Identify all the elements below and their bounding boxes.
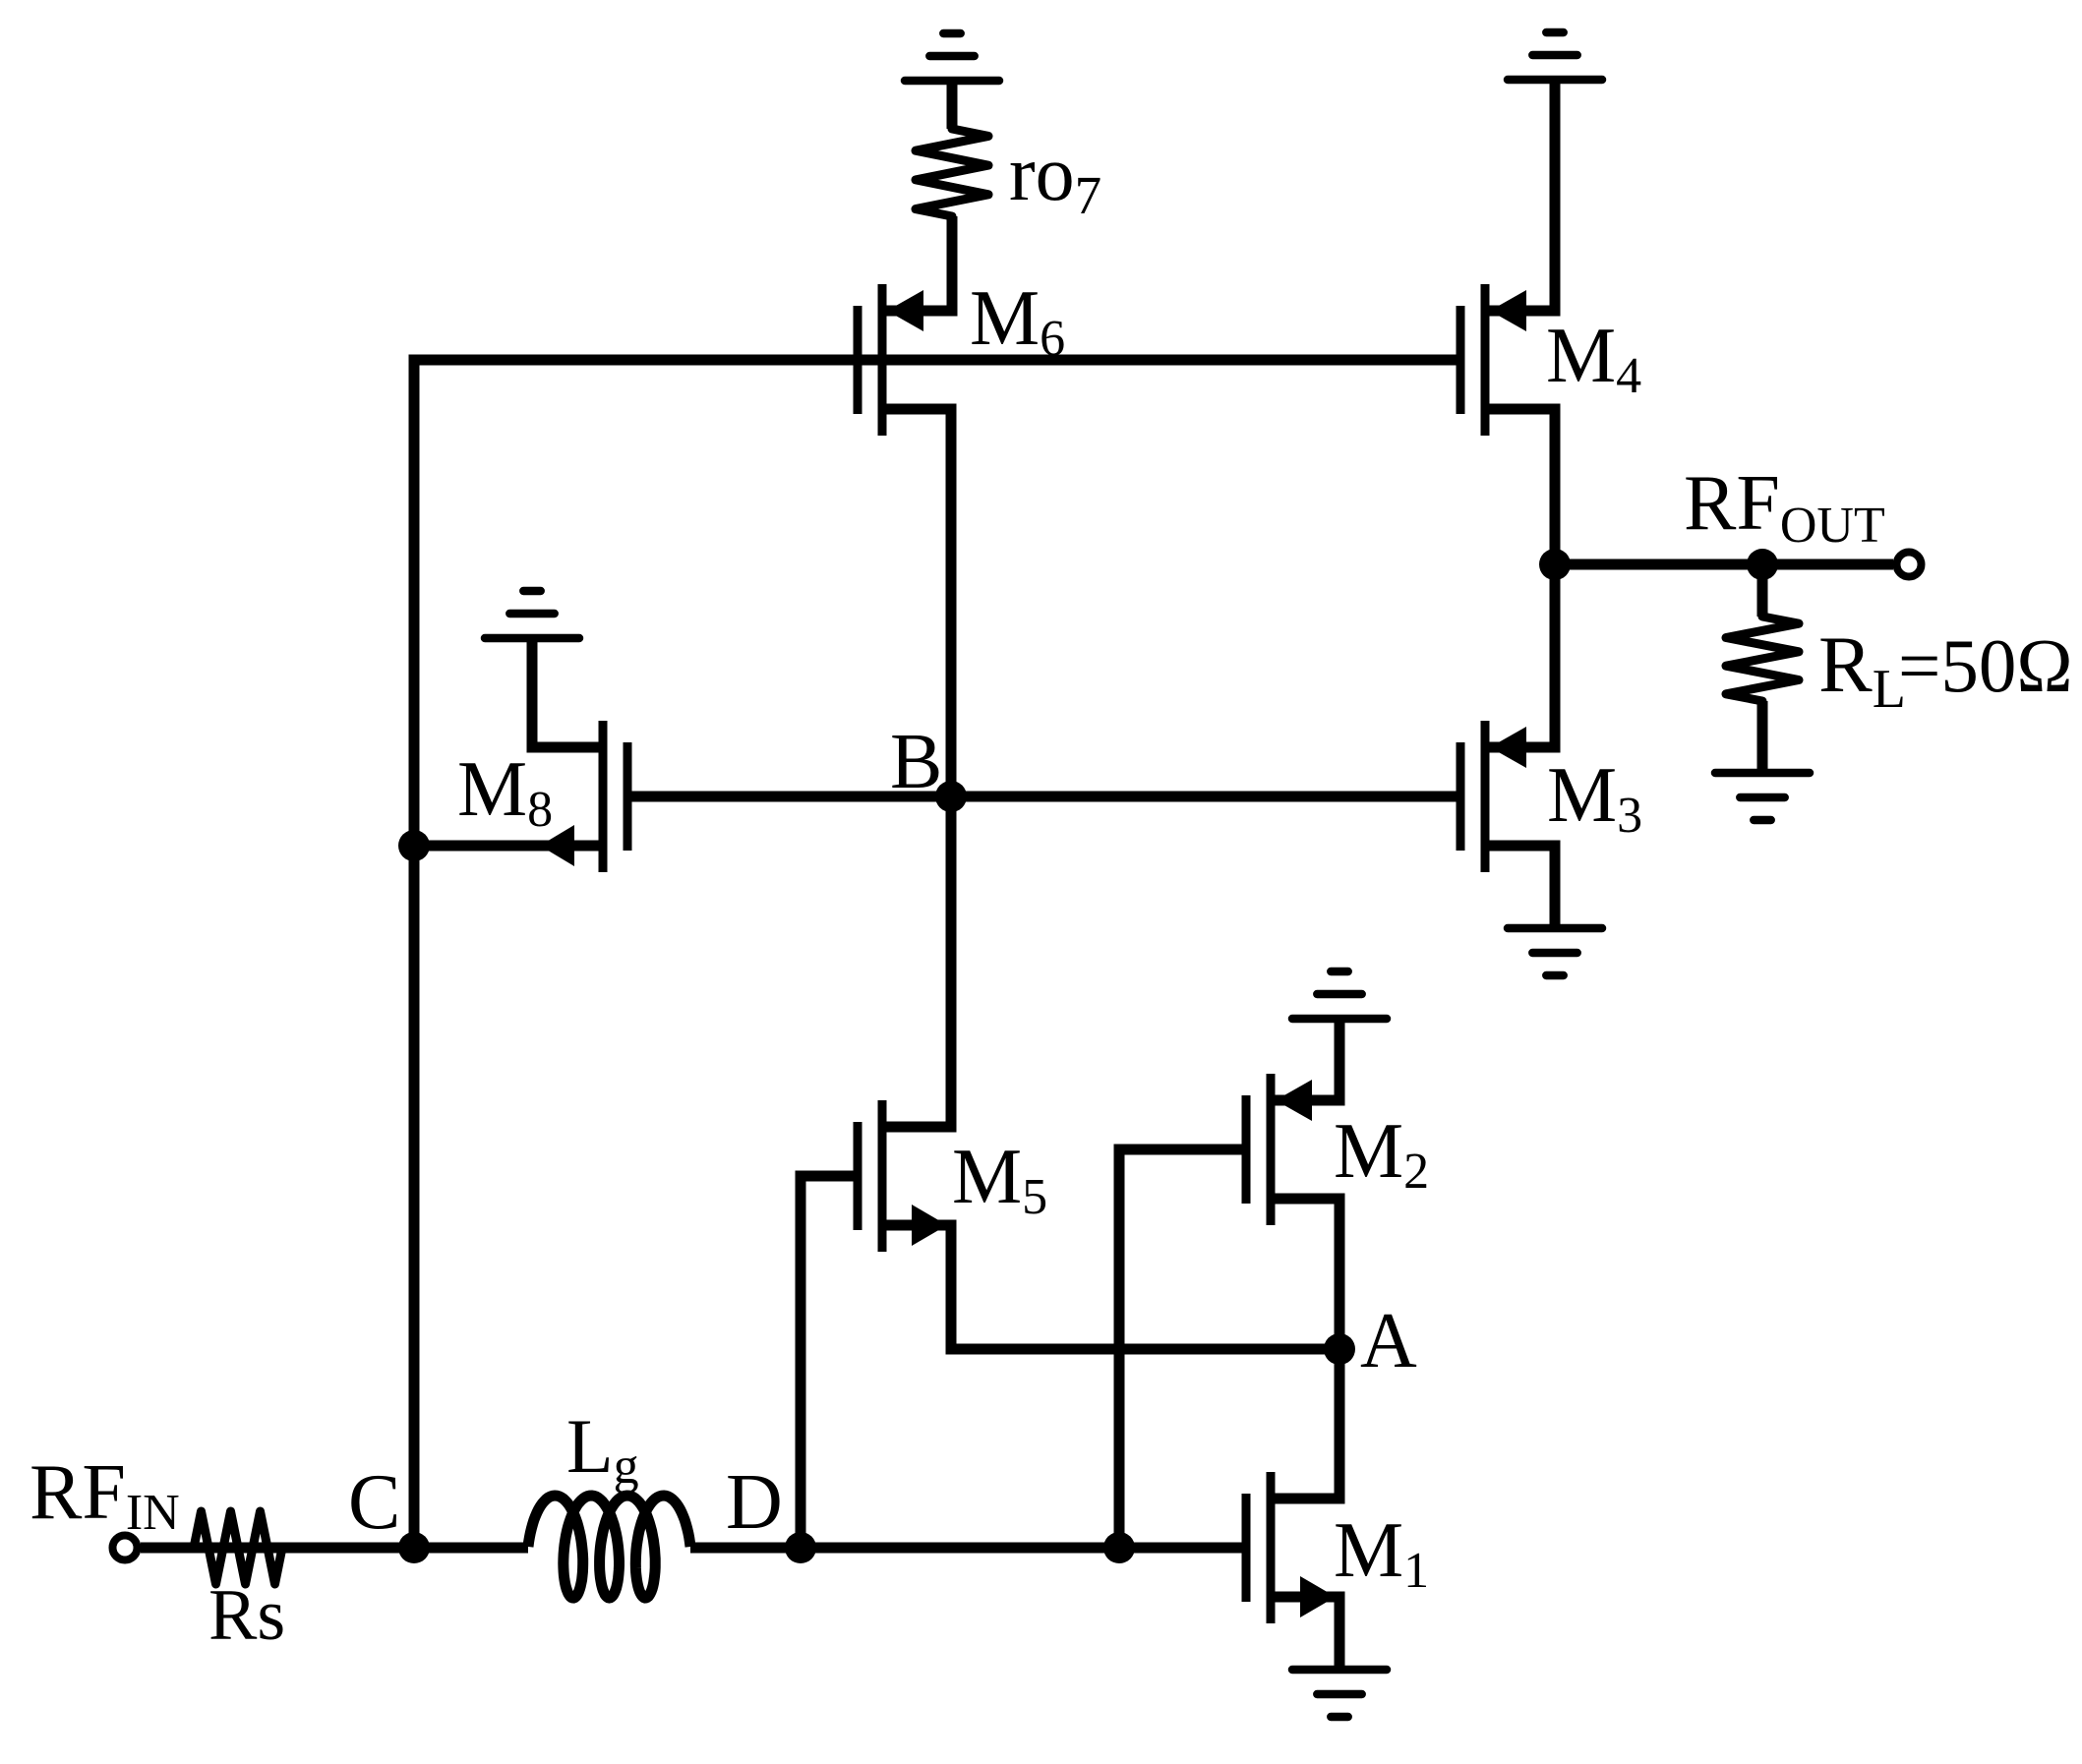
wire M3 source up to RF_OUT node: [1485, 564, 1555, 747]
wire M3 drain to ground: [1485, 846, 1555, 928]
label node A: [1360, 1298, 1417, 1384]
svg-text:A: A: [1360, 1298, 1417, 1384]
transistor M5: [858, 1100, 951, 1252]
wire M2 source to VDD: [1271, 1019, 1339, 1100]
svg-text:M1: M1: [1334, 1507, 1429, 1599]
ground below M1: [1292, 1670, 1387, 1717]
wire top gate bus from node C riser to M4 gate: [414, 360, 1457, 1548]
transistor M4: [1460, 284, 1554, 436]
svg-text:B: B: [890, 719, 942, 805]
wire M5 source to node A: [882, 1225, 1339, 1349]
label Lg: [566, 1403, 639, 1495]
svg-text:C: C: [348, 1459, 400, 1546]
svg-text:RFOUT: RFOUT: [1684, 460, 1885, 554]
label RF_OUT: [1684, 460, 1885, 554]
svg-text:RFIN: RFIN: [30, 1449, 180, 1541]
output terminal: [1897, 553, 1922, 577]
ground below RL: [1715, 773, 1810, 820]
resistor Rs: [194, 1511, 282, 1584]
node A junction: [1324, 1333, 1355, 1365]
wire M2 gate down to node D line: [1119, 1149, 1242, 1548]
svg-text:M3: M3: [1547, 752, 1642, 844]
wire M1 source to ground: [1271, 1597, 1339, 1670]
label M1: [1334, 1507, 1429, 1599]
transistor M1: [1246, 1472, 1339, 1623]
junction RF_OUT at RL: [1747, 549, 1778, 580]
label node D: [726, 1459, 783, 1546]
VDD above M4: [1508, 32, 1602, 80]
svg-text:M6: M6: [970, 275, 1065, 367]
svg-text:M4: M4: [1546, 313, 1641, 404]
transistor M8: [534, 721, 627, 872]
wire M5 gate down to node D: [801, 1176, 854, 1548]
svg-text:M8: M8: [457, 746, 553, 838]
label M8: [457, 746, 553, 838]
label RF_IN: [30, 1449, 180, 1541]
node B junction: [935, 781, 967, 812]
wire M1 drain up to node A: [1271, 1349, 1339, 1499]
transistor M6: [858, 284, 951, 436]
label node B: [890, 719, 942, 805]
label ro7: [1009, 131, 1101, 225]
resistor RL: [1726, 564, 1799, 773]
wire RF_IN to inductor: [141, 1543, 528, 1554]
wire M8 source to VDD: [532, 638, 603, 747]
svg-text:D: D: [726, 1459, 783, 1546]
label M4: [1546, 313, 1641, 404]
label M2: [1334, 1108, 1429, 1200]
label M3: [1547, 752, 1642, 844]
svg-text:RL: RL: [1818, 619, 1906, 720]
label node C: [348, 1459, 400, 1546]
wire M2 drain to node A: [1271, 1199, 1339, 1349]
svg-text:ro7: ro7: [1009, 131, 1101, 225]
label M6: [970, 275, 1065, 367]
svg-text:M5: M5: [952, 1134, 1047, 1225]
transistor M3: [1460, 721, 1554, 872]
junction M8 drain on C riser: [398, 830, 430, 861]
wire node D bus to M1 gate: [690, 1543, 1242, 1554]
label RL=50: [1818, 619, 2073, 720]
VDD above ro7: [905, 33, 999, 81]
svg-text:Rs: Rs: [208, 1575, 285, 1656]
node D junction: [785, 1532, 816, 1563]
wire M6 drain down through node B to M5 drain: [882, 409, 951, 1127]
inductor Lg: [528, 1496, 690, 1598]
ground below M3: [1508, 928, 1602, 975]
junction RF_OUT at M4 drain: [1539, 549, 1571, 580]
wire M4 source to VDD: [1485, 80, 1555, 311]
wire node-B bus from M8 gate to M3 gate: [631, 792, 1457, 802]
svg-text:M2: M2: [1334, 1108, 1429, 1200]
resistor ro7: [916, 81, 988, 311]
VDD above M2: [1292, 971, 1387, 1019]
label M5: [952, 1134, 1047, 1225]
transistor M2: [1246, 1074, 1339, 1225]
wire M4 drain to RF_OUT node: [1485, 409, 1555, 564]
input terminal: [113, 1536, 138, 1560]
wire M8 drain to node C riser: [414, 841, 603, 852]
label Rs: [208, 1575, 285, 1656]
svg-text:=50Ω: =50Ω: [1898, 623, 2073, 708]
junction D-line / M2 gate riser: [1103, 1532, 1135, 1563]
svg-text:Lg: Lg: [566, 1403, 639, 1495]
node C junction: [398, 1532, 430, 1563]
wire M6 source to ro7: [882, 265, 952, 311]
wire RF_OUT node to output terminal: [1555, 559, 1893, 570]
VDD above M8: [485, 591, 579, 638]
